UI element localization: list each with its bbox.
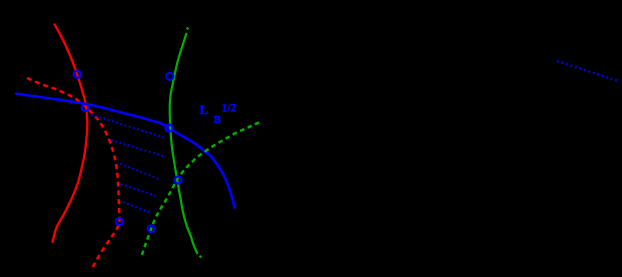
svg-text:1/2: 1/2	[222, 103, 237, 115]
svg-text:L: L	[200, 102, 209, 117]
svg-text:B: B	[214, 115, 221, 126]
